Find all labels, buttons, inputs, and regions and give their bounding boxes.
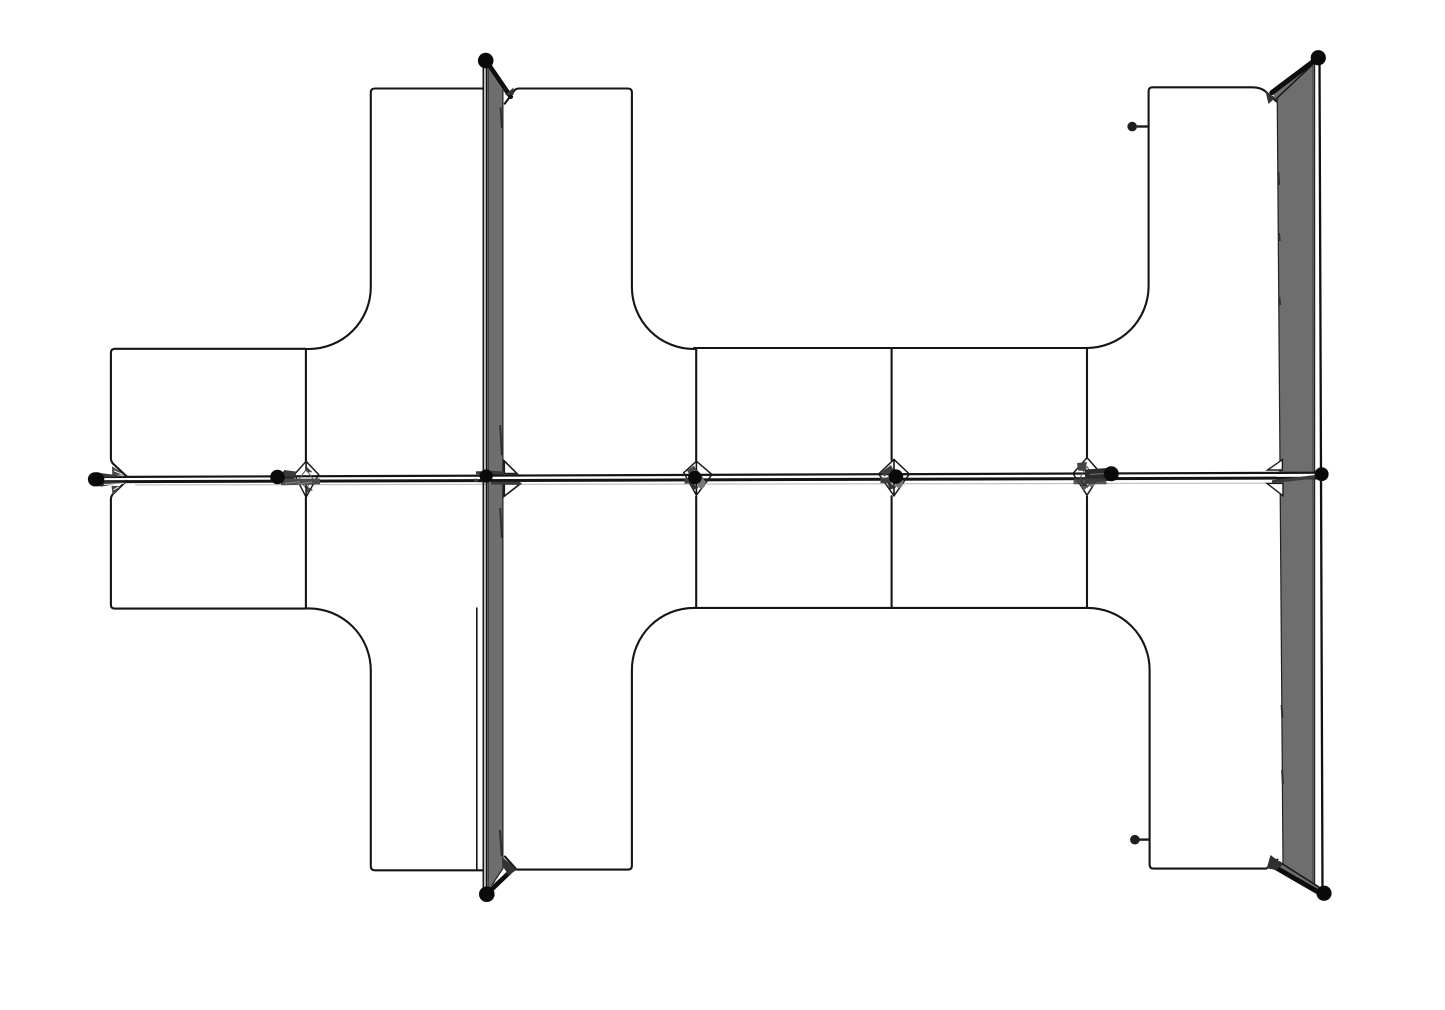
P2 corner wedge top	[1266, 92, 1276, 105]
seam between center desks upper	[891, 348, 893, 460]
desk bottom-left L (worksurface left of screen, below rail)	[306, 608, 483, 870]
seam between center desks lower	[891, 496, 893, 608]
center desks bottom edge	[694, 607, 1087, 609]
node ball x=695	[688, 471, 702, 485]
desk left rectangle upper	[111, 349, 306, 477]
desk left rectangle lower	[111, 481, 306, 609]
desk edge left of screen bottom	[476, 608, 478, 869]
clamp bracket at left pill end	[100, 473, 126, 478]
connector diamond at seam x=306	[294, 461, 318, 497]
clamp sleeve left of node x=1111	[1085, 468, 1111, 484]
node ball x=486 on P1	[480, 469, 493, 482]
screen panel P2 (right)	[1272, 58, 1323, 895]
node ball x=895	[889, 469, 903, 483]
connector diamond at seam x=894	[879, 459, 910, 495]
desk top-middle right of screen	[505, 89, 696, 462]
peg top on right desk	[1127, 122, 1148, 132]
rail tube top edge	[95, 473, 1321, 477]
P2 corner wedge bottom	[1267, 855, 1283, 870]
node ball x=279	[270, 470, 285, 485]
node ball x=1321 on P2	[1315, 467, 1329, 481]
connector diamond at seam x=698	[684, 461, 712, 495]
P2 rail bracket triangles	[1267, 460, 1283, 496]
rail tube overlay over P1	[478, 476, 521, 481]
desk top-right L	[1087, 87, 1277, 348]
screen panel P1 (left)	[483, 61, 512, 894]
P1 bottom node ball	[479, 886, 495, 902]
rail tube body	[95, 473, 1321, 482]
rail soft shadow line	[135, 483, 1285, 485]
node ball x=1111	[1104, 466, 1119, 481]
rail end pill (left terminator)	[95, 472, 97, 486]
clamp bracket right of node x=279	[284, 470, 296, 477]
P2 top node ball	[1311, 50, 1326, 65]
seam right junction upper	[1086, 348, 1088, 458]
P1 corner wedge top	[505, 88, 514, 96]
seam right junction lower	[1086, 497, 1088, 608]
desk bottom-middle right of screen	[505, 497, 696, 870]
P1 rail bracket triangles	[504, 461, 520, 496]
P1 top node ball	[478, 53, 494, 69]
desk top-left L (worksurface left of screen)	[306, 89, 483, 462]
rail tube bottom edge	[95, 478, 1321, 482]
desk bottom-right L	[1088, 608, 1278, 869]
rail tube overlay over P2	[1272, 473, 1322, 484]
P1 corner wedge bottom	[503, 858, 518, 876]
peg bottom on right desk	[1130, 835, 1150, 845]
P2 bottom node ball	[1316, 886, 1331, 901]
center desks top edge	[694, 347, 1087, 349]
connector diamond at seam x=1087	[1073, 458, 1101, 496]
